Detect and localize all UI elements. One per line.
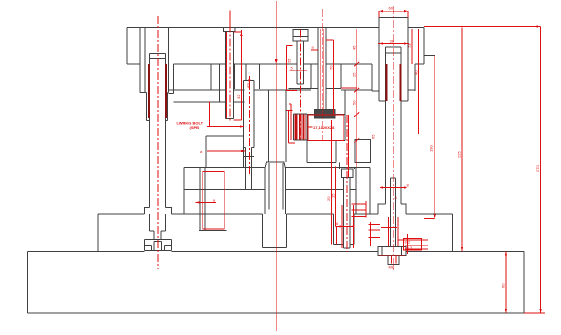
upper shoe left edge [126,28,128,65]
centerline right pillar [392,6,394,270]
dimension die right vertical 1 [331,120,333,245]
svg-text:a: a [312,45,315,50]
upper bolt centerline stub [229,11,231,28]
red line in column tip [249,82,251,175]
right pillar foot [378,246,406,255]
upper shoe right edge [423,28,425,65]
dimension die right vertical 2 [335,166,337,226]
left pillar shank in shoe [149,214,165,239]
punch holder plate line y=101.3 [174,64,245,102]
right guide bushing [379,18,408,102]
upper shoe left end block inner edge [139,28,141,65]
left pillar foot [145,240,172,251]
upper shoe right end block inner edge [407,28,409,65]
section centerline [275,1,277,331]
dimension bolt length [233,30,241,120]
die plate joint line y=189.7 [184,189,356,191]
centerline center punch [321,29,324,109]
svg-text:25: 25 [287,58,292,63]
spring insert red outline [308,115,344,140]
die plate top edge y=167.3 [184,166,370,168]
die plate right columns [356,167,370,214]
svg-text:65: 65 [371,134,376,139]
svg-text:45: 45 [351,45,356,50]
overall height arrows [536,25,541,313]
base thickness dimension [505,251,507,313]
dimension screw bracket [287,45,297,90]
svg-text:270: 270 [535,165,540,172]
dimension right side mid [418,29,420,134]
svg-text:60: 60 [501,283,506,288]
spring insert left dimension [286,104,295,143]
leader line [207,126,244,128]
dimension to base top arrow [461,247,463,251]
lower bolt extension lines [342,205,354,248]
svg-text:6: 6 [336,221,339,226]
svg-text:10.3: 10.3 [405,245,414,250]
shoulder screw S1 shank [297,41,304,84]
right pillar flange [378,204,406,214]
dimension right side short [411,29,413,64]
lower bolt B2 shank [344,177,351,247]
dowel pin D1 [199,167,226,230]
lower bolt red extension upper [347,115,349,177]
svg-text:a: a [200,149,203,154]
spring insert hatched block [293,114,306,140]
svg-text:M8: M8 [389,265,395,270]
screw head division [293,36,308,38]
upper bolt B1 shank [225,32,233,119]
lower bolt B2 head [341,169,353,177]
svg-text:a: a [213,197,216,202]
screw seat line [289,87,315,89]
svg-text:8: 8 [395,195,398,200]
backing plate hole wall left bushing [169,64,174,94]
bolt head pocket wall [211,64,259,90]
svg-text:8: 8 [407,183,410,188]
svg-text:50: 50 [351,100,356,105]
dark red press fit left pillar [149,64,166,118]
left guide pillar walls [149,53,165,207]
red line right of punch pocket [341,87,357,89]
section line arrow [275,59,278,64]
svg-text:5: 5 [291,66,294,71]
die right ladder horizontals [352,201,367,217]
lower shoe left edge [97,214,99,251]
right guide pillar walls [386,47,402,204]
left guide bushing body [147,93,168,121]
die plate left step [183,167,185,214]
leader die step [207,150,245,152]
die button upper body [269,90,286,162]
shoulder screw S1 head [293,30,308,42]
lower bolt dimension arrows [339,225,354,227]
right pillar foot screw head [388,255,399,264]
leader die step arrow [241,150,245,152]
svg-text:70: 70 [329,65,334,70]
lower bolt dimension horizontal [335,226,354,244]
red mark on column top [248,76,250,83]
right foot ladder right horizontals [398,240,428,249]
dimension to base top [461,28,463,252]
upper shoe bottom line y=64 [127,63,424,65]
dimension to lower shoe [424,55,435,218]
die button chamfered top [265,162,285,168]
lower shoe right edge [452,214,454,251]
right foot pocket walls [382,246,402,255]
backing plate left edge [140,64,145,93]
red detail box die area [203,172,225,230]
dimension crossing right bolt [381,226,397,228]
base plate [28,251,524,313]
center punch P1 shank [318,28,326,110]
red extension above leader [209,102,211,127]
ordinate dimension line x=356.7 [354,29,359,167]
left guide bushing flange [145,28,168,93]
overall height dimension [424,27,545,314]
dimension die area arrow [195,201,199,203]
bolt dim arrow mark [240,32,242,36]
svg-text:15: 15 [330,193,335,198]
right foot ladder left vertical [369,222,371,246]
dimension screw diameter [289,70,307,72]
dimension punch tick [311,49,318,51]
svg-text:38: 38 [390,39,395,44]
bolt end pocket in lower shoe [334,214,354,244]
spring insert note leader [307,126,313,128]
die button cavity walls [269,163,283,210]
lower bolt head pocket walls [340,163,355,170]
center punch column [243,81,254,190]
dimension cap arrows [379,10,408,12]
dimension to lower shoe arrow [434,214,436,218]
svg-text:8.2: 8.2 [405,240,411,245]
svg-text:190: 190 [428,145,433,152]
dimension pillar top width [378,43,409,45]
leader arrow [240,125,244,127]
svg-text:1: 1 [353,232,356,237]
left pillar foot screw head [154,242,162,251]
stripper plate left block [206,136,243,167]
stripper plate center block [307,115,345,163]
upper shoe right step tick [424,54,435,56]
die pocket in lower shoe [263,214,287,247]
dimension bushing cap width [379,11,408,17]
dimension across pillar shank [380,187,407,189]
svg-text:(SPB: (SPB [190,125,200,130]
dimension punch side vertical [326,40,334,115]
right pillar bolt in shoe [391,178,396,246]
right bushing cap protrusion [379,18,408,28]
backing plate right edge [414,64,416,91]
svg-text:32: 32 [236,94,241,99]
spring insert hatch lines [295,114,305,139]
svg-text:40: 40 [413,70,418,75]
backing plate hole wall right bushing [372,64,379,91]
stripper block pocket wall [344,90,346,115]
centerline shoulder screw [299,30,301,141]
red line across foot bottom [379,256,405,264]
punch flange pocket walls [311,64,341,89]
svg-text:225: 225 [457,151,462,158]
right foot ladder right verticals [407,234,421,254]
svg-text:60: 60 [389,6,394,11]
centerline left pillar [157,16,159,269]
centerline lower bolt [346,115,348,252]
upper bolt thread line [226,32,228,118]
upper bolt B1 head [224,28,235,32]
right foot red box [404,239,422,250]
lower shoe top edge y=214.2 [98,213,452,215]
left pillar flange [145,207,172,214]
upper shoe top edge [127,27,424,29]
die button hole walls [265,168,285,214]
dark red press fit right pillar [386,64,400,101]
right foot ladder left horizontals [369,224,381,237]
dimension die area horizontal [195,201,216,203]
svg-text:73: 73 [407,43,412,48]
right pillar bolt red extensions [388,217,398,246]
svg-text:25: 25 [351,72,356,77]
center punch P1 flange [315,110,336,119]
backing plate bottom line y=90 [169,89,415,91]
svg-text:ø9: ø9 [246,83,251,88]
centerline upper bolt [229,11,231,121]
right side step block [355,139,370,162]
